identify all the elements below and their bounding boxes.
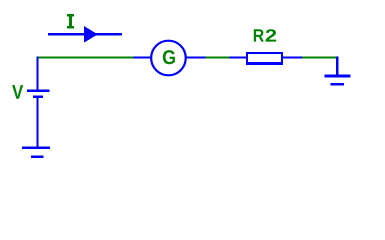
galvanometer left pin	[134, 56, 152, 58]
wire left (node top-left corner to galvanometer)	[39, 56, 134, 58]
battery V top pin	[36, 56, 38, 91]
resistor R2 body	[246, 52, 283, 65]
battery V bottom pin	[36, 97, 38, 148]
ground bottom-left long bar	[22, 146, 50, 149]
galvanometer right pin	[186, 56, 205, 58]
resistor R2 left pin	[230, 56, 248, 58]
ground right short bar	[331, 83, 344, 86]
label R2	[254, 29, 264, 41]
current arrow head	[84, 26, 98, 43]
ground bottom-left short bar	[31, 155, 44, 158]
ground right pin	[336, 56, 338, 75]
label G	[163, 50, 175, 64]
resistor R2 right pin	[282, 56, 302, 58]
galvanometer circle U1	[151, 41, 186, 76]
wire between galvanometer and resistor	[206, 56, 230, 58]
ground right long bar	[325, 75, 351, 78]
battery V top plate	[27, 90, 50, 92]
label I	[67, 14, 74, 29]
current arrow line	[48, 33, 122, 36]
battery V bottom plate	[33, 96, 43, 98]
label V	[12, 85, 23, 99]
wire resistor to right corner	[302, 56, 337, 58]
